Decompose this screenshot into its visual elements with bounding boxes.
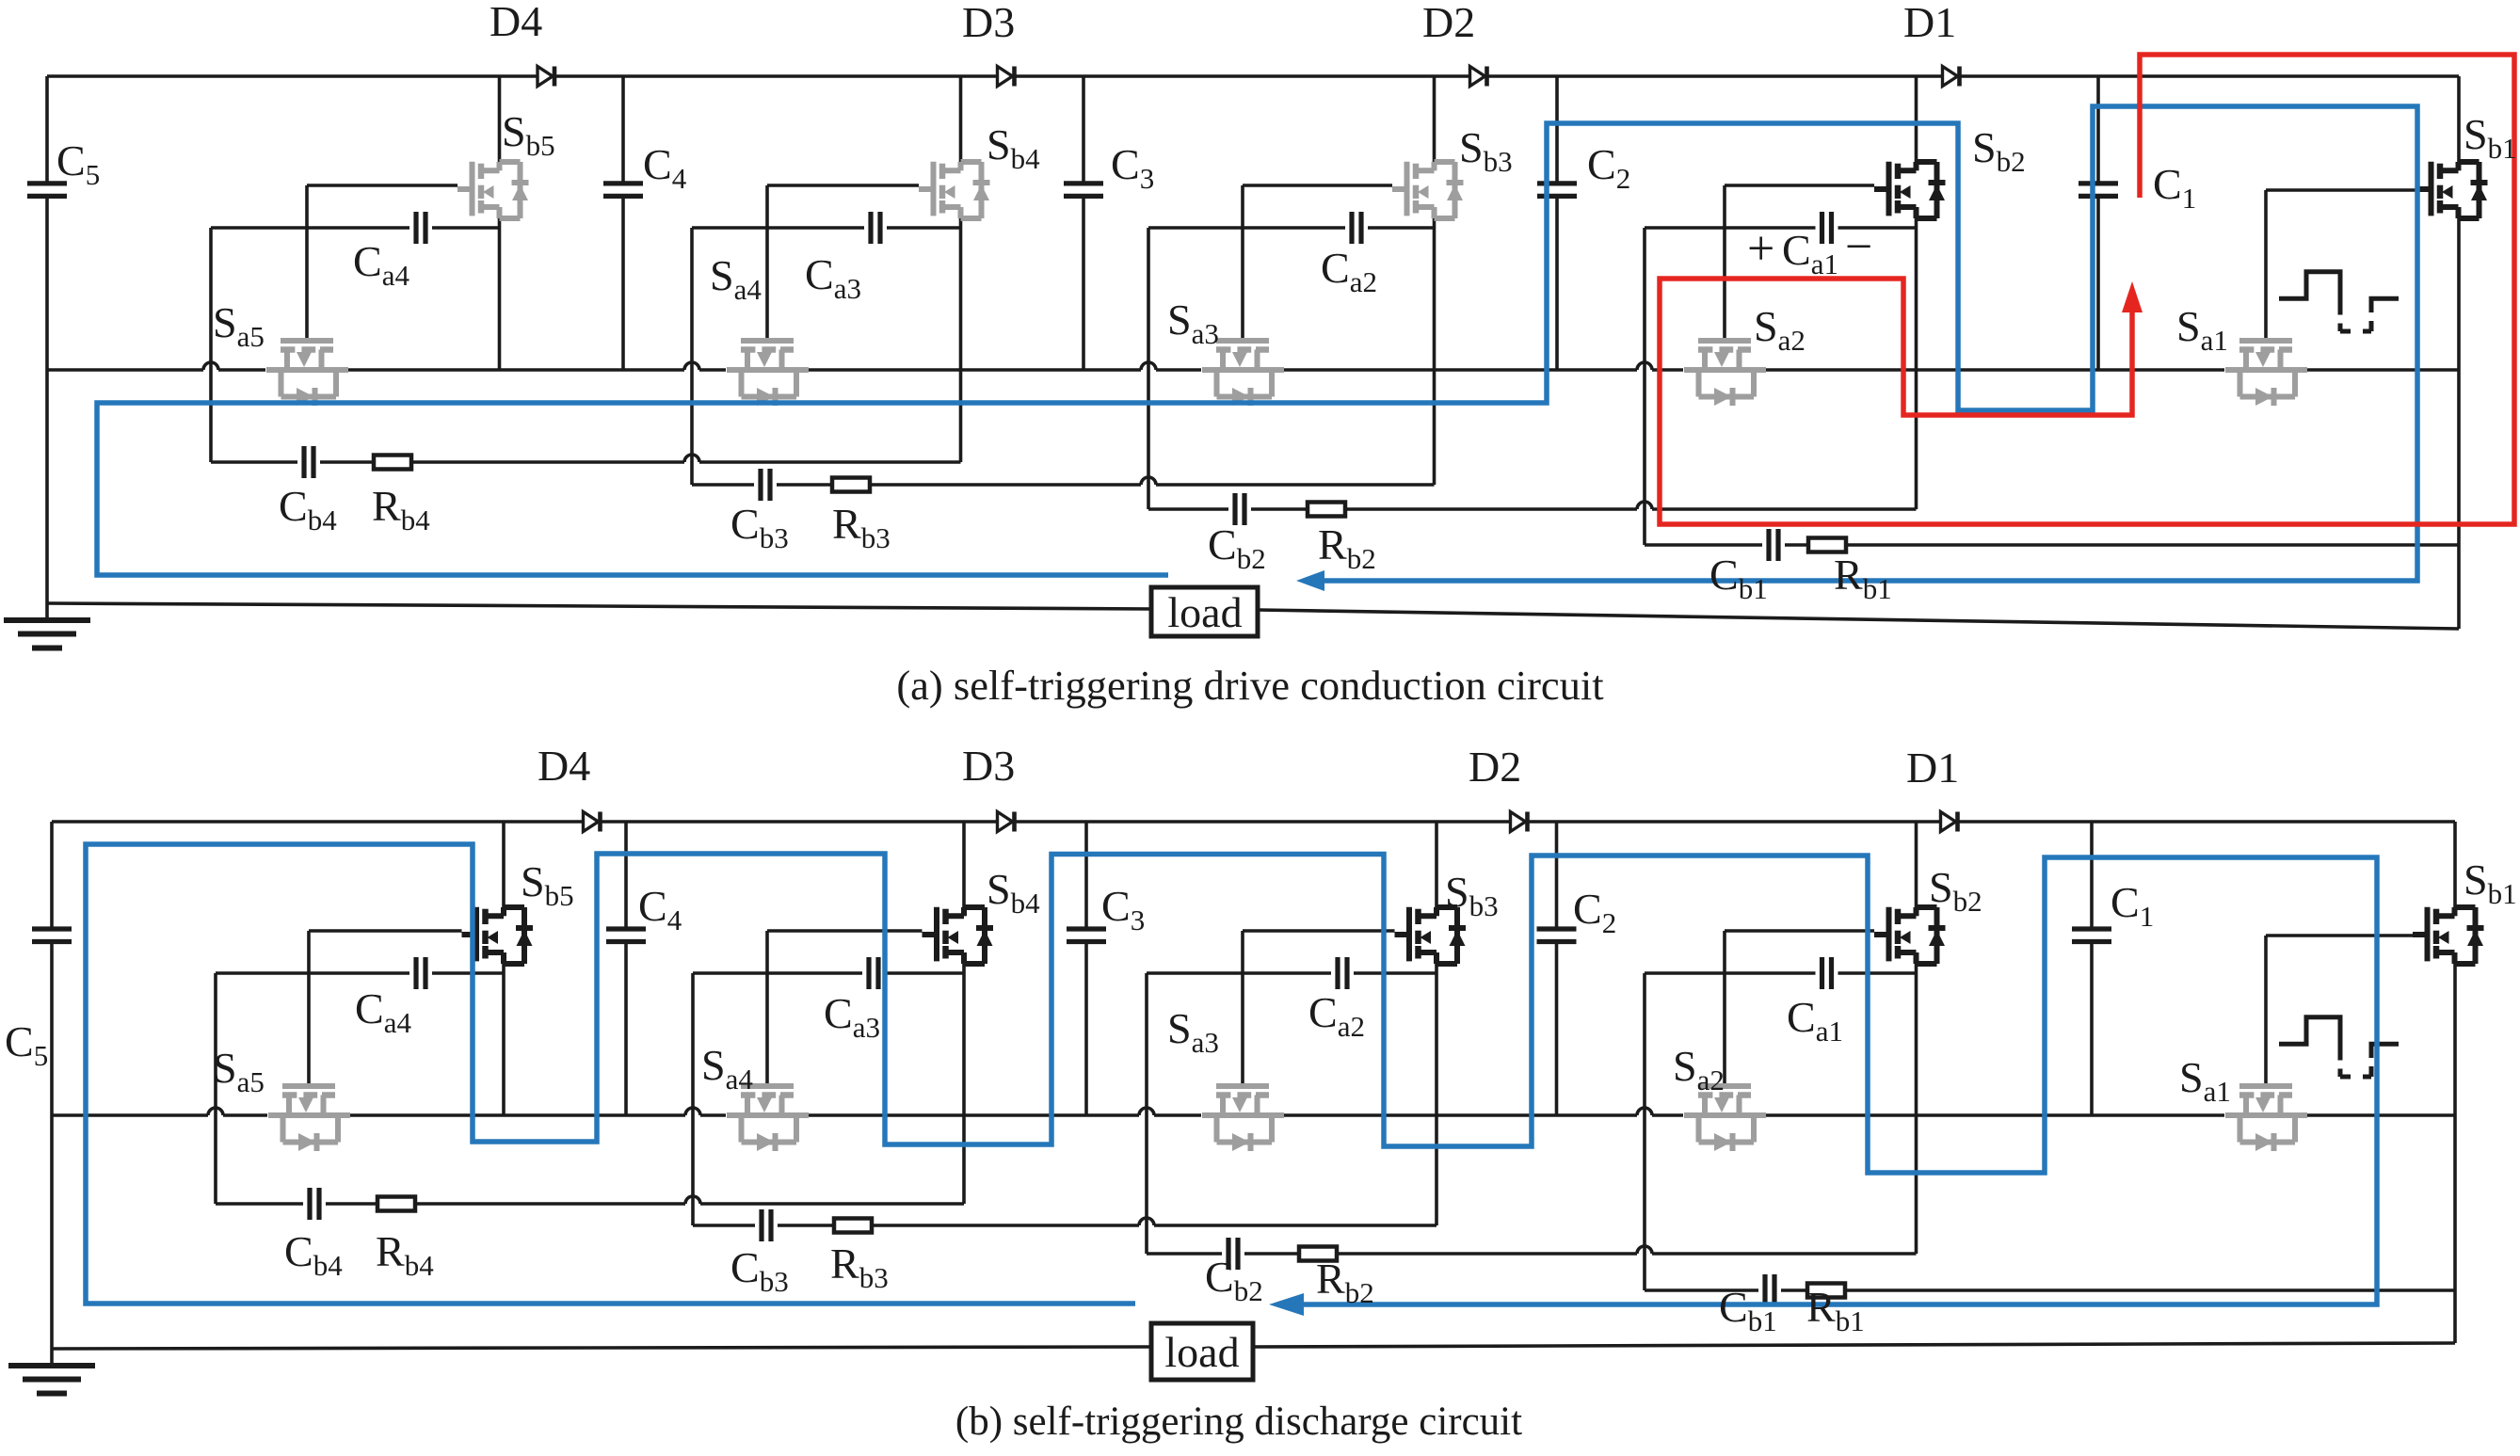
svg-text:load: load (1167, 588, 1242, 636)
svg-text:load: load (1164, 1328, 1239, 1376)
svg-text:D2: D2 (1422, 0, 1475, 46)
svg-text:−: − (1845, 220, 1872, 274)
svg-text:D4: D4 (490, 0, 542, 45)
svg-text:+: + (1747, 222, 1774, 276)
svg-text:(a) self-triggering drive cond: (a) self-triggering drive conduction cir… (896, 662, 1604, 709)
svg-text:D3: D3 (962, 0, 1015, 46)
svg-text:(b) self-triggering discharge: (b) self-triggering discharge circuit (955, 1400, 1522, 1444)
svg-text:D3: D3 (962, 742, 1015, 790)
svg-text:D1: D1 (1906, 744, 1959, 792)
svg-text:D2: D2 (1469, 743, 1521, 791)
svg-text:D4: D4 (538, 742, 590, 790)
svg-text:D1: D1 (1903, 0, 1956, 46)
